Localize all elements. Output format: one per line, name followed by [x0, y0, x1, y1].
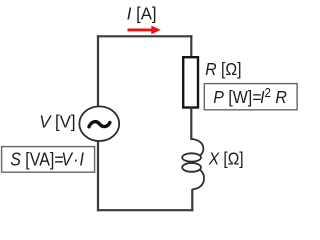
wire: left vertical from top-left corner down to source — [97, 35, 99, 107]
AC source: sine tilde symbol — [89, 122, 110, 127]
wire: bottom horizontal — [97, 209, 193, 211]
svg-text:X [Ω]: X [Ω] — [208, 149, 244, 169]
AC source V: circle — [79, 106, 119, 141]
svg-text:R [Ω]: R [Ω] — [205, 59, 241, 79]
wire: resistor to inductor — [190, 108, 192, 141]
wire: inductor tail to bottom-right corner — [191, 189, 193, 211]
wire: top horizontal — [97, 35, 192, 37]
svg-text:S [VA]=V·I: S [VA]=V·I — [10, 149, 84, 169]
current arrow (red) — [128, 28, 153, 31]
inductor X coil: lower loop — [182, 163, 201, 172]
svg-text:V [V]: V [V] — [39, 111, 75, 132]
resistor R — [183, 57, 198, 107]
svg-text:P [W]=I2 R: P [W]=I2 R — [213, 85, 287, 107]
wire: right vertical from top-right corner to resistor — [190, 35, 192, 58]
inductor X coil: top arc — [191, 139, 203, 156]
formula box S [VA]=V·I — [2, 147, 95, 173]
inductor X coil: upper loop — [182, 153, 201, 161]
formula box P [W]=I²R — [204, 84, 297, 110]
wire: source to bottom-left corner — [97, 141, 99, 212]
inductor X coil: bottom arc — [192, 170, 204, 190]
svg-text:I [A]: I [A] — [127, 3, 157, 24]
